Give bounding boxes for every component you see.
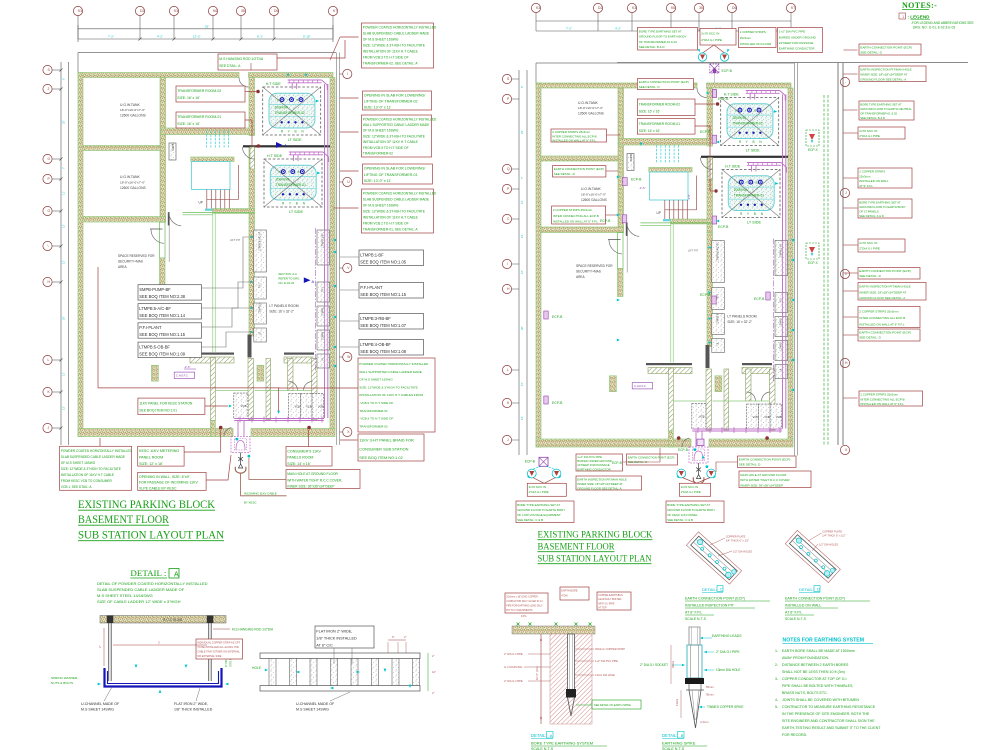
plan2-TR02 cable tray magenta: [746, 90, 780, 92]
ladder flat iron box: [315, 626, 374, 648]
plan1-TR01 X diagonals: [264, 159, 322, 207]
svg-text:LTMPB:5-OB-BF: LTMPB:5-OB-BF: [139, 344, 170, 349]
svg-text:K6: K6: [671, 6, 675, 10]
svg-text:SEE DETAIL: D: SEE DETAIL: D: [739, 463, 761, 467]
svg-text:TRANSFORMER ROOM-01: TRANSFORMER ROOM-01: [177, 115, 221, 119]
plan2 TR01 label box: [637, 119, 695, 135]
plan1 hanging rod leader to right: [277, 40, 345, 58]
plan1 tank wall extension below: [160, 222, 166, 258]
svg-text:K3: K3: [632, 6, 636, 10]
svg-text:INNER SIZE: 18"x18"x24"DEEP AT: INNER SIZE: 18"x18"x24"DEEP AT: [860, 73, 907, 77]
svg-text:2x70 SCC IN: 2x70 SCC IN: [859, 129, 877, 133]
svg-text:SPACE RESERVED FOR: SPACE RESERVED FOR: [576, 264, 613, 268]
plan2 hatch wall piece at transformer door: [708, 158, 713, 180]
plan1 rbox LTMPB3: [359, 314, 424, 330]
plan2 violet elevation box: [632, 377, 637, 382]
svg-text:SMPB: SMPB: [629, 154, 633, 162]
plan1 door swing line: [150, 228, 163, 230]
svg-text:13': 13': [520, 416, 524, 420]
plan1-TR01 LT bushings: [282, 193, 284, 195]
svg-text:D6: D6: [732, 6, 736, 10]
plan2 rbox ecp2: [858, 268, 920, 280]
plan1 bbox powder leader: [99, 438, 101, 446]
plan2-TR01 LT bushings: [740, 204, 742, 206]
plan2 tbox pvc pipe: [778, 28, 823, 53]
bore box2: [560, 587, 589, 600]
svg-text:INSTALLED INSPECTION PIT: INSTALLED INSPECTION PIT: [685, 604, 735, 608]
plan2 ecp box top: [637, 79, 693, 90]
plan2 corridor gray line: [626, 223, 628, 273]
svg-text:\: \: [48, 244, 49, 248]
svg-text:-: -: [845, 80, 846, 84]
svg-text:EARTH CONNECTION POINT (ECP): EARTH CONNECTION POINT (ECP): [628, 455, 675, 459]
svg-text:H.T SIDE: H.T SIDE: [266, 82, 282, 86]
svg-text:TRANSFORMER ROOM-01: TRANSFORMER ROOM-01: [639, 122, 681, 126]
plan2 tbox copper floor: [739, 28, 777, 48]
plan1 cyan arrows at walls: [333, 239, 336, 242]
plan1-TR01 cyan arrow at tray: [317, 172, 320, 175]
svg-text:SLAB SUSPENDED CABLE LADDER MA: SLAB SUSPENDED CABLE LADDER MADE OF: [97, 587, 185, 592]
svg-text:J: J: [48, 426, 50, 430]
svg-text:OPENING IN SLAB FOR LOWERING/: OPENING IN SLAB FOR LOWERING/: [364, 167, 426, 171]
plan1 label box P.F.I-PLANT: [138, 323, 202, 338]
spike top rect: [689, 627, 700, 645]
svg-text:Y: Y: [745, 109, 747, 113]
svg-text:SITE ENGINEER AND CONTRACTOR S: SITE ENGINEER AND CONTRACTOR SHALL SIGN …: [782, 719, 875, 723]
svg-text:BRASS NUTS, BOLTS ETC.: BRASS NUTS, BOLTS ETC.: [782, 691, 828, 695]
svg-text:1/4" THICK 6" x 1/2": 1/4" THICK 6" x 1/2": [726, 539, 749, 543]
svg-text:B: B: [296, 201, 298, 205]
svg-text:EARTH INSPECTION PIT/MAN HOLE: EARTH INSPECTION PIT/MAN HOLE: [859, 285, 910, 289]
svg-text:2" DIA G.I PIPE: 2" DIA G.I PIPE: [504, 679, 523, 683]
plan2 TR02 label box: [637, 99, 695, 116]
plan1 leader from 11kv panel braid: [98, 387, 280, 389]
svg-text:10'-0" (3m): 10'-0" (3m): [535, 666, 539, 680]
plan1 top wall: [78, 73, 239, 78]
svg-text:BORE TYPE EARTHING SYSTEM: BORE TYPE EARTHING SYSTEM: [531, 741, 593, 746]
svg-text:2"DIA G.I PIPE: 2"DIA G.I PIPE: [529, 490, 549, 494]
plan2 magenta riser overlay: [782, 95, 784, 429]
svg-text:SEE DETAIL OF EARTH SPIKE: SEE DETAIL OF EARTH SPIKE: [594, 703, 631, 707]
svg-text:POWDER COATED HORIZONTALLY INS: POWDER COATED HORIZONTALLY INSTALLED: [61, 449, 133, 453]
svg-text:SEE DETAIL: A & D: SEE DETAIL: A & D: [859, 214, 884, 218]
svg-text:K3: K3: [174, 9, 178, 13]
plan1 TR01 label box: [176, 112, 245, 128]
svg-text:EXISTING PARKING BLOCK: EXISTING PARKING BLOCK: [78, 499, 215, 511]
svg-text:BURIED UNDER GROUND: BURIED UNDER GROUND: [779, 35, 817, 39]
svg-text:POWDER COATED HORIZONTALLY INS: POWDER COATED HORIZONTALLY INSTALLED: [359, 362, 429, 366]
plan1 label box LTMPB:5-OB-BF: [138, 342, 202, 357]
plan1 VCB1 VCB2 VCB3 boxes: [289, 394, 301, 419]
svg-text:EARTH CONNECTION POINT (ECP): EARTH CONNECTION POINT (ECP): [860, 46, 912, 50]
svg-text:GROUND FLOOR SEE DETAIL: A: GROUND FLOOR SEE DETAIL: A: [860, 78, 906, 82]
svg-text:LT SIDE: LT SIDE: [747, 220, 761, 224]
svg-text:PANEL ROOM: PANEL ROOM: [139, 456, 163, 460]
svg-text:25x3mm COPPER STRIP: 25x3mm COPPER STRIP: [595, 647, 625, 651]
plan1 left panel strip: [254, 230, 266, 272]
svg-text:TRANSFORMER-01: TRANSFORMER-01: [276, 183, 306, 187]
plan2 bore pair above line: [703, 45, 725, 53]
svg-text:2x70 SCC IN: 2x70 SCC IN: [701, 31, 719, 35]
svg-text:SIZE: 16' x 16': SIZE: 16' x 16': [639, 109, 661, 113]
svg-text:B: B: [295, 129, 297, 133]
plan1-TR01 room dashed outline: [264, 159, 322, 207]
svg-text:COPPER CONDUCTOR AT TOP OF G.I: COPPER CONDUCTOR AT TOP OF G.I: [782, 677, 847, 681]
svg-text:ECP-B: ECP-B: [700, 130, 711, 134]
svg-text:LTMPB: LTMPB: [322, 332, 325, 340]
svg-text:FLAT IRON 2" WIDE,: FLAT IRON 2" WIDE,: [174, 702, 208, 706]
svg-text:FROM VCB:3 TO H.T SIDE OF: FROM VCB:3 TO H.T SIDE OF: [363, 146, 409, 150]
svg-text:24"DEEP FOR PASSAGE: 24"DEEP FOR PASSAGE: [779, 41, 814, 45]
plan1-TR02 HT bushings: [280, 98, 284, 102]
svg-text:EARTH CONNECTION POINT (ECP): EARTH CONNECTION POINT (ECP): [639, 80, 689, 84]
svg-text:2": 2": [432, 691, 435, 695]
plan2 rbox 2x70b: [858, 239, 905, 252]
svg-text:EARTH INSPECTION PIT/MAN HOLE: EARTH INSPECTION PIT/MAN HOLE: [860, 68, 911, 72]
svg-text:INSTALLATION OF 11KV H.T CABLE: INSTALLATION OF 11KV H.T CABLE: [363, 140, 419, 144]
svg-text:BORE TYPE EARTHING SET AT: BORE TYPE EARTHING SET AT: [860, 102, 902, 106]
plan1 hanging rod box: [218, 54, 277, 70]
svg-text:INTER CONNECTING ALL ECP-B: INTER CONNECTING ALL ECP-B: [860, 397, 904, 401]
svg-text:23': 23': [62, 120, 66, 124]
svg-text:GROUND FLOOR TO EARTH NEUTRAL: GROUND FLOOR TO EARTH NEUTRAL: [860, 107, 912, 111]
plan2-TR01 cable tray magenta: [747, 162, 781, 164]
svg-text:TRANSFORMER-01: TRANSFORMER-01: [734, 193, 764, 197]
svg-text:2"DIA G.I PIPE: 2"DIA G.I PIPE: [859, 134, 880, 138]
svg-text:ECP-B: ECP-B: [631, 178, 642, 182]
svg-text:SEE DETAIL: D: SEE DETAIL: D: [554, 172, 576, 176]
svg-text:11': 11': [520, 382, 524, 386]
svg-text:M.S SHEET STEEL 14/16SWG: M.S SHEET STEEL 14/16SWG: [97, 593, 153, 598]
svg-text:FOR PASSAGE OF INCOMING 11KV: FOR PASSAGE OF INCOMING 11KV: [139, 481, 198, 485]
svg-text:TRANSFORMER-02: TRANSFORMER-02: [275, 111, 305, 115]
svg-text:LEAD DULY BOLTED: LEAD DULY BOLTED: [598, 598, 621, 601]
plan1 cyan teardrops: [236, 438, 239, 441]
ladder dims red: [388, 639, 406, 641]
svg-text:12600 GALLONS: 12600 GALLONS: [120, 186, 146, 190]
svg-text:AREA: AREA: [576, 275, 586, 279]
svg-text:SCALE N-T-S: SCALE N-T-S: [785, 617, 807, 621]
svg-text:AT 6" F.P.L: AT 6" F.P.L: [685, 611, 702, 615]
svg-text:D2: D2: [140, 9, 144, 13]
svg-text:INSTALLATION OF 11KV H.T CABLE: INSTALLATION OF 11KV H.T CABLE: [61, 473, 114, 477]
svg-text:OF TRANSFORMER-01 & 02: OF TRANSFORMER-01 & 02: [639, 40, 677, 44]
plan1 right column leaders: [340, 36, 359, 38]
svg-text:12600 GALLONS: 12600 GALLONS: [581, 198, 607, 202]
svg-text:EARTH CONNECTION POINT (ECP): EARTH CONNECTION POINT (ECP): [859, 331, 911, 335]
svg-text:MAIN HOLE AT GROUND FLOOR: MAIN HOLE AT GROUND FLOOR: [740, 473, 787, 477]
svg-text:SIZE: 12"WIDE & 3"HIGH TO FACI: SIZE: 12"WIDE & 3"HIGH TO FACILITATE: [363, 44, 426, 48]
svg-text:EARTH BORE: EARTH BORE: [561, 590, 578, 593]
svg-text:HOLE: HOLE: [252, 666, 262, 670]
plan1 lift pit green room outline: [212, 214, 214, 352]
bore left dim line: [540, 634, 542, 724]
svg-text:13': 13': [62, 406, 66, 410]
plan1 top grid drop lines: [77, 16, 79, 39]
bore pipe: [568, 634, 575, 694]
svg-text:SEE DETAIL: B & D: SEE DETAIL: B & D: [639, 45, 665, 49]
plan1 right panel strip: [317, 230, 330, 265]
svg-text:SIZE: 13'-0" x 11': SIZE: 13'-0" x 11': [364, 106, 392, 110]
svg-text:ECP-B: ECP-B: [718, 97, 729, 101]
svg-text:SEE BOQ ITEM NO:1.07: SEE BOQ ITEM NO:1.07: [360, 323, 406, 328]
svg-text:POWDER COATED HORIZONTALLY INS: POWDER COATED HORIZONTALLY INSTALLED: [363, 26, 437, 30]
svg-text:B: B: [681, 733, 684, 738]
svg-text:11KV 3-HT PANEL BRAID FOR: 11KV 3-HT PANEL BRAID FOR: [359, 438, 414, 443]
svg-text:M.S HANGING ROD 1/2"DIA: M.S HANGING ROD 1/2"DIA: [219, 57, 264, 61]
svg-text:SIZE: 12' x 16': SIZE: 12' x 16': [139, 462, 163, 466]
svg-text:-FOR LEGEND AND ABBREVIATIONS: -FOR LEGEND AND ABBREVIATIONS SEE: [911, 21, 974, 25]
plan1-TR01 body: [270, 165, 316, 200]
svg-text:18'-0"x16'-0"x7'-0": 18'-0"x16'-0"x7'-0": [120, 181, 145, 185]
plan2 right wall: [788, 88, 793, 440]
svg-text:LT PANELS ROOM: LT PANELS ROOM: [269, 304, 298, 308]
svg-text:K3: K3: [536, 6, 540, 10]
plan2 ECP-B dashed box below line: [710, 64, 719, 73]
spike pipe: [687, 645, 702, 678]
plan2-TR02 cyan arrow at tray: [774, 110, 777, 113]
svg-text:1/4" THICK 6" x 1/2": 1/4" THICK 6" x 1/2": [822, 534, 845, 538]
detailA rod anchors: [107, 616, 114, 624]
plan1-TR02 room dashed outline: [263, 87, 321, 135]
svg-text:TO BE INSTALLED ALL ALONG THE: TO BE INSTALLED ALL ALONG THE: [197, 646, 239, 649]
svg-text:EARTH CONNECTION POINT (ECP): EARTH CONNECTION POINT (ECP): [785, 597, 845, 601]
plan2 bbox ecp mid: [627, 454, 678, 465]
plan2 magenta cable bus: [692, 428, 782, 430]
plan1 section A marker upper: [276, 142, 283, 148]
plan2 bbox pvc: [576, 454, 623, 471]
svg-text:OF KESC 11KV PANEL: OF KESC 11KV PANEL: [667, 513, 698, 517]
plan2 VCB box: [692, 404, 706, 429]
plan1-TR02 cable tray magenta: [288, 79, 322, 81]
svg-text:LTMPB:5: LTMPB:5: [717, 313, 720, 324]
bore ground band: [512, 626, 595, 634]
plan2 violet elevation marks: [632, 184, 637, 189]
svg-text:EARTHING LEADS: EARTHING LEADS: [712, 634, 742, 638]
plan1 bbox main hole: [286, 470, 360, 489]
plan2 dark band between transformer rooms: [701, 156, 788, 158]
plan2 rbox copper3: [859, 391, 923, 406]
svg-text:OF TRANSFORMER-01 & 02: OF TRANSFORMER-01 & 02: [860, 112, 897, 116]
svg-text:1/2" DIA HOLES: 1/2" DIA HOLES: [819, 543, 838, 547]
svg-text:12600 GALLONS: 12600 GALLONS: [578, 112, 604, 116]
svg-text:AT 6" F.P.L: AT 6" F.P.L: [785, 611, 802, 615]
plan2-TR01 body: [728, 176, 774, 211]
svg-text:55mm: 55mm: [706, 685, 714, 689]
ECP detail C plate diagonal: [686, 532, 741, 584]
plan1 magenta cable bus: [234, 418, 323, 420]
plan1 door jamb dark bar: [168, 212, 170, 225]
svg-text:OPENING IN WALL, SIZE: 6"x9": OPENING IN WALL, SIZE: 6"x9": [139, 475, 191, 479]
svg-text:SEE BOQ ITEM NO:1.09: SEE BOQ ITEM NO:1.09: [139, 351, 185, 356]
svg-text:SECTION: A-A: SECTION: A-A: [278, 272, 297, 276]
svg-text:SUB STATION LAYOUT PLAN: SUB STATION LAYOUT PLAN: [538, 554, 652, 565]
plan2 bbox main hole: [739, 471, 811, 488]
svg-text:SIZE: 16' x 16': SIZE: 16' x 16': [177, 122, 200, 126]
svg-text:A: A: [312, 279, 315, 284]
svg-text:FOR RECORD.: FOR RECORD.: [782, 733, 807, 737]
plan2 SMPB box: [627, 154, 634, 171]
plan1 rbox opening TR02: [363, 91, 432, 110]
plan2 left dimension lines: [518, 70, 520, 455]
plan1 rbox LTMPB1: [359, 250, 424, 266]
plan1 bottom section walls: [211, 358, 216, 421]
plan2 right panel strip: [775, 241, 788, 276]
svg-text:U.G.W.TANK: U.G.W.TANK: [578, 101, 598, 105]
svg-text:NO: E-04-33: NO: E-04-33: [278, 281, 294, 285]
svg-text:B: B: [754, 212, 756, 216]
svg-text:Y: Y: [287, 98, 289, 102]
svg-text:2x70 SCC IN: 2x70 SCC IN: [529, 485, 547, 489]
plan1-TR02 cyan arrow at tray: [316, 100, 319, 103]
plan1 opening wall leader: [206, 455, 231, 480]
plan2 right column leaders: [844, 49, 858, 51]
svg-text:LTMPB:3-RB-BF: LTMPB:3-RB-BF: [360, 316, 391, 321]
svg-text:2x70 SCC IN: 2x70 SCC IN: [859, 241, 877, 245]
svg-text:25x3mm: 25x3mm: [740, 36, 752, 40]
plan1 violet label box: [174, 372, 194, 378]
svg-text:U.G.W.TANK: U.G.W.TANK: [120, 103, 140, 107]
plan1-TR01 cable tray magenta: [289, 151, 323, 153]
svg-text:LTMPB:1-BF: LTMPB:1-BF: [360, 252, 384, 257]
svg-text:12'-2": 12'-2": [193, 35, 201, 39]
svg-text:ECP-B: ECP-B: [600, 219, 611, 223]
svg-text:H.T SIDE: H.T SIDE: [724, 93, 740, 97]
svg-text:LTMPB:4-OB-BF: LTMPB:4-OB-BF: [360, 342, 391, 347]
plan2 bottom wall: [536, 439, 691, 447]
svg-text:LT SIDE: LT SIDE: [289, 210, 303, 214]
svg-text:11': 11': [62, 191, 66, 195]
svg-text:DETAIL :: DETAIL :: [130, 568, 166, 578]
svg-text:EARTHING CONDUCTOR: EARTHING CONDUCTOR: [577, 467, 610, 471]
svg-text:AT 6" C/C: AT 6" C/C: [316, 643, 333, 647]
plan1 magenta riser along right wall: [324, 84, 326, 418]
plan1 stair landing wall: [191, 157, 234, 162]
bore see detail green box: [592, 700, 641, 709]
svg-text:LIFTING OF TRANSFORMER-02: LIFTING OF TRANSFORMER-02: [364, 100, 418, 104]
bore box3: [597, 592, 631, 610]
svg-text:DETAIL OF POWDER COATED HORIZO: DETAIL OF POWDER COATED HORIZONTALLY INS…: [97, 581, 208, 586]
plan2 tank wall extension below: [618, 233, 624, 269]
plan2 lift opening cyan rect: [650, 172, 688, 200]
svg-text:INCOMING 11KV CABLE: INCOMING 11KV CABLE: [244, 492, 277, 496]
plan2-TR01 room dashed outline: [722, 170, 780, 218]
plan1 outer boundary thin lines: [78, 52, 336, 54]
plan2 top wall: [536, 83, 697, 88]
svg-text:: LEGEND: : LEGEND: [908, 15, 931, 20]
spike black band: [685, 678, 704, 684]
plan1 label box SMPB-PUMP-BF: [138, 285, 202, 300]
svg-text:UP: UP: [657, 211, 661, 215]
svg-text:SECURITY+MAS: SECURITY+MAS: [118, 260, 143, 264]
svg-text:12': 12': [62, 260, 66, 264]
plan2 rbox bore1: [859, 101, 914, 120]
svg-text:EARTH-TESTING RESULT AND SUBMI: EARTH-TESTING RESULT AND SUBMIT IT TO TH…: [782, 726, 881, 730]
svg-text:TRANSFORMER ROOM-02: TRANSFORMER ROOM-02: [177, 89, 221, 93]
svg-text:NUTS & BOLTS: NUTS & BOLTS: [51, 681, 73, 685]
svg-text:FROM VCB:3 TO H.T SIDE OF: FROM VCB:3 TO H.T SIDE OF: [363, 56, 409, 60]
plan1 rbox powder wall2: [358, 358, 435, 432]
svg-text:INDIVIDUAL COPPER STRIP AS CPT: INDIVIDUAL COPPER STRIP AS CPT: [197, 641, 240, 644]
plan1 red dots on bottom wall: [219, 426, 223, 430]
svg-text:DRG. NO : E-01, E-02 & E-03: DRG. NO : E-01, E-02 & E-03: [913, 26, 955, 30]
svg-text:AWAY FROM FOUNDATION.: AWAY FROM FOUNDATION.: [782, 656, 829, 660]
plan1 left wall: [78, 73, 83, 437]
plan1 rbox powder slab TR01: [362, 189, 434, 233]
svg-text:D: D: [817, 588, 820, 592]
svg-text:TINNED COPPER SPIKE: TINNED COPPER SPIKE: [707, 705, 744, 709]
plan1 top grid bubbles: [73, 6, 82, 15]
plan2 TR leaders: [695, 103, 715, 105]
plan2 tbox 2x70: [700, 29, 736, 46]
plan2 bbox 2x70: [527, 483, 566, 496]
svg-text:PANELS ROOM: PANELS ROOM: [287, 456, 313, 460]
svg-text:SIZE: 14' x 16': SIZE: 14' x 16': [287, 462, 310, 466]
svg-text:LIFTING OF TRANSFORMER-01: LIFTING OF TRANSFORMER-01: [364, 173, 418, 177]
plan2 cyan teardrops: [694, 448, 697, 451]
svg-text:FROM VCB:2 TO H.T SIDE OF: FROM VCB:2 TO H.T SIDE OF: [363, 222, 409, 226]
svg-text:DETAIL:: DETAIL:: [662, 733, 678, 738]
svg-text:11KV PANEL FOR KESC STATION: 11KV PANEL FOR KESC STATION: [139, 401, 193, 405]
plan2-TR02 LT bushings: [739, 132, 741, 134]
svg-text:ECP-X: ECP-X: [808, 261, 819, 265]
svg-text:NOTES FOR EARTHING SYSTEM: NOTES FOR EARTHING SYSTEM: [783, 638, 865, 644]
plan1 corridor wall below tanks: [161, 128, 255, 135]
svg-text:-VCB:3 TO H.T SIDE OF: -VCB:3 TO H.T SIDE OF: [359, 417, 393, 421]
svg-text:SEE BOQ ITEM NO:1.15: SEE BOQ ITEM NO:1.15: [360, 292, 406, 297]
svg-text:H.T SIDE: H.T SIDE: [267, 154, 283, 158]
svg-text:SIZE: 12"WIDE & 3"HIGH TO FACI: SIZE: 12"WIDE & 3"HIGH TO FACILITATE: [363, 134, 426, 138]
plan1 rbox powder wall: [362, 115, 432, 157]
svg-text:SMPB-PUMP-BF: SMPB-PUMP-BF: [139, 287, 171, 292]
plan2-TR01 X diagonals: [722, 170, 780, 218]
plan1 TR02 leader: [245, 91, 256, 93]
plan2-TR02 body: [727, 104, 773, 139]
svg-text:ECP-B: ECP-B: [552, 315, 563, 319]
plan1 bbox kesc room: [138, 446, 184, 466]
plan1 label box LTMPB:6-A/C-BF: [138, 304, 202, 319]
plan2 copper strips tank1: [551, 129, 607, 142]
plan1 transformer rooms left wall: [249, 78, 255, 136]
svg-text:M.S HANGING ROD 1/2"DIA: M.S HANGING ROD 1/2"DIA: [232, 628, 274, 632]
svg-text:GROUND FLOOR SEE DETAIL: A: GROUND FLOOR SEE DETAIL: A: [577, 486, 621, 490]
svg-text:SEE DETAIL: C & B: SEE DETAIL: C & B: [667, 518, 693, 522]
svg-text:2 COPPER STRIPS: 2 COPPER STRIPS: [740, 30, 766, 34]
svg-text:ECP-B: ECP-B: [700, 293, 711, 297]
svg-text:ECP-B: ECP-B: [718, 225, 729, 229]
svg-text:VCB: VCB: [699, 415, 705, 419]
svg-text:SIZE: 16' x 32'-2": SIZE: 16' x 32'-2": [269, 310, 294, 314]
plan2 rbox ecp3: [858, 329, 920, 341]
plan2 bore pair at 681.3: [677, 469, 686, 478]
svg-text:TRANSFORMER ROOM-02: TRANSFORMER ROOM-02: [639, 102, 681, 106]
plan2 LT room left wall: [707, 233, 713, 347]
plan1 right wall: [330, 78, 335, 430]
plan2 top grid bubbles: [531, 3, 540, 12]
svg-text:INSTALLATION OF 11KV H.T CABLE: INSTALLATION OF 11KV H.T CABLES FROM: [359, 393, 423, 397]
svg-text:SCALE N-T-S: SCALE N-T-S: [685, 617, 707, 621]
plan2 cyan cable risers: [656, 145, 658, 162]
svg-text:OF M.S SHEET 16SWG: OF M.S SHEET 16SWG: [363, 129, 399, 133]
svg-text:SEE BOQ ITEM NO:2.38: SEE BOQ ITEM NO:2.38: [139, 294, 185, 299]
svg-text:R.C.C SLAB: R.C.C SLAB: [163, 618, 183, 622]
ladder rails: [260, 653, 420, 659]
svg-text:SIZE: 16' x 16': SIZE: 16' x 16': [177, 96, 200, 100]
plan1 lift opening cyan rect: [192, 162, 230, 190]
plan2 door swing line: [608, 239, 621, 241]
plan2-TR02 HT bushings: [738, 108, 742, 112]
plan1 green door head lines: [255, 390, 288, 392]
